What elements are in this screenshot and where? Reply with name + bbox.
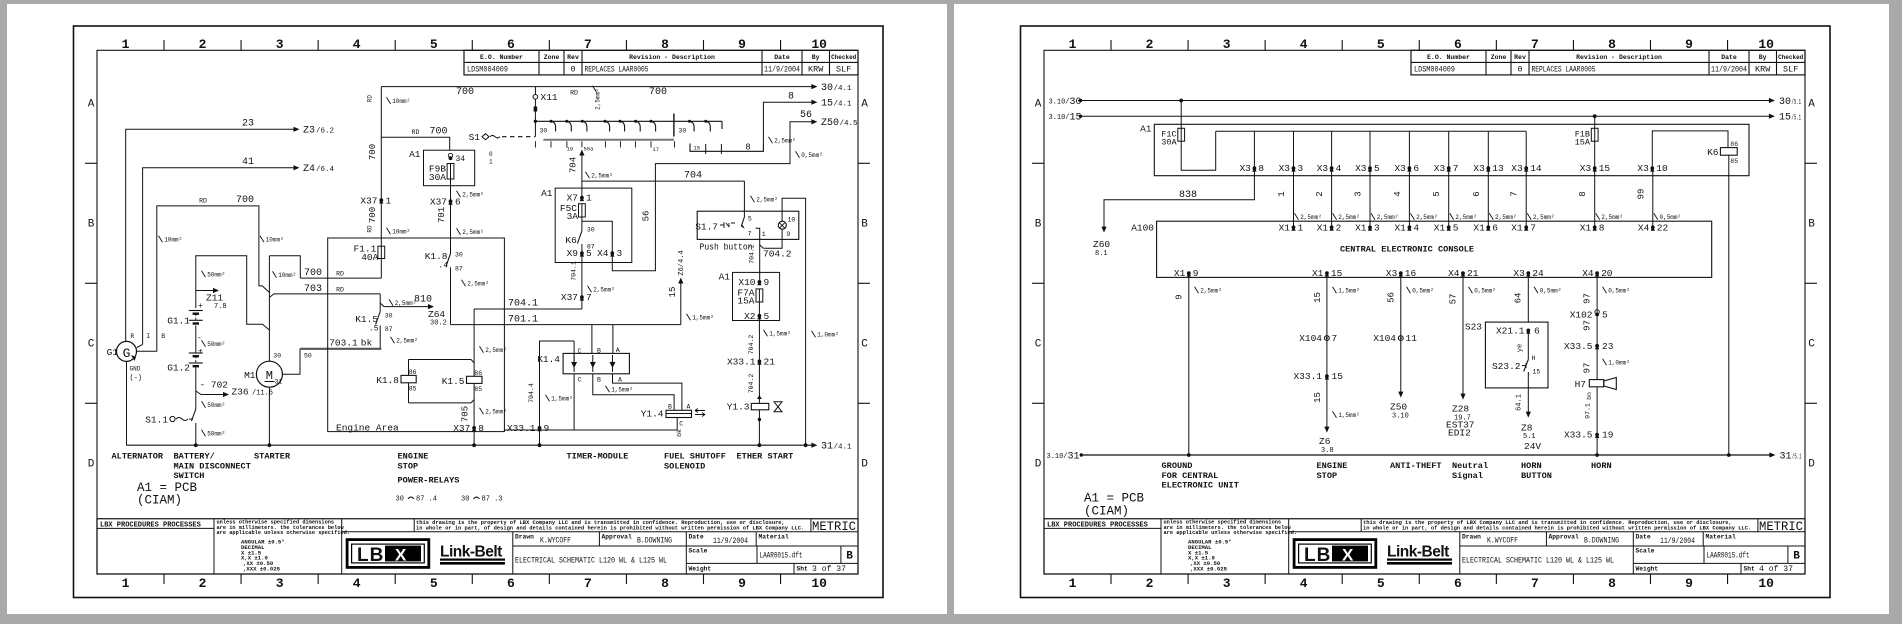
wire K6 85 to ground <box>1728 155 1730 455</box>
svg-text:1,5mm²: 1,5mm² <box>1338 412 1360 419</box>
svg-text:(CIAM): (CIAM) <box>1084 505 1129 519</box>
svg-text:Z50: Z50 <box>821 118 839 129</box>
svg-text:15A: 15A <box>737 296 754 307</box>
connector bracket 15/8 <box>690 142 763 151</box>
svg-text:SLF: SLF <box>836 65 851 75</box>
lamp in push button <box>778 221 786 229</box>
svg-text:2,5mm²: 2,5mm² <box>1377 214 1399 221</box>
svg-text:3.8: 3.8 <box>1321 447 1334 455</box>
svg-text:9: 9 <box>1175 294 1185 299</box>
svg-text:703.1: 703.1 <box>329 337 358 348</box>
svg-text:2,5mm²: 2,5mm² <box>1601 214 1623 221</box>
wire F1C to internal bus <box>1181 131 1216 170</box>
svg-text:87 .3: 87 .3 <box>482 496 503 504</box>
svg-text:3: 3 <box>1223 37 1231 52</box>
svg-text:X1: X1 <box>1580 222 1592 233</box>
svg-text:4: 4 <box>353 576 361 591</box>
svg-text:X1: X1 <box>1317 222 1329 233</box>
svg-text:7: 7 <box>1332 333 1338 344</box>
svg-text:ELECTRICAL SCHEMATIC L120 WL &: ELECTRICAL SCHEMATIC L120 WL & L125 WL <box>1462 556 1614 566</box>
svg-text:1: 1 <box>762 231 766 238</box>
svg-text:are applicable unless otherwis: are applicable unless otherwise specifie… <box>217 530 351 536</box>
svg-text:15: 15 <box>694 145 701 152</box>
svg-text:4: 4 <box>1300 37 1308 52</box>
svg-text:0,5mm²: 0,5mm² <box>1660 214 1682 221</box>
title block scale cell <box>1633 562 1805 564</box>
svg-text:in whole or in part, of design: in whole or in part, of design and detai… <box>1363 526 1751 532</box>
svg-text:Z6/4.4: Z6/4.4 <box>678 250 686 275</box>
svg-text:X4: X4 <box>1638 222 1650 233</box>
svg-text:H7: H7 <box>1575 379 1586 390</box>
svg-text:LDSM004009: LDSM004009 <box>1414 65 1455 75</box>
svg-text:FOR CENTRAL: FOR CENTRAL <box>1162 471 1219 481</box>
svg-text:15: 15 <box>1070 113 1082 124</box>
svg-text:B: B <box>597 376 601 383</box>
svg-text:K6: K6 <box>1707 147 1719 158</box>
svg-text:X3: X3 <box>1355 163 1367 174</box>
svg-text:6: 6 <box>1534 325 1540 336</box>
svg-text:K1.5: K1.5 <box>442 376 465 387</box>
svg-text:Z60: Z60 <box>1093 239 1110 250</box>
wire 700 vertical from top bus / node X37 1 <box>380 87 382 247</box>
svg-text:X1: X1 <box>1473 222 1485 233</box>
svg-text:STARTER: STARTER <box>254 452 291 462</box>
svg-text:1: 1 <box>1277 191 1287 196</box>
svg-text:A: A <box>1808 99 1815 111</box>
svg-text:8: 8 <box>1608 576 1616 591</box>
svg-text:11/9/2004: 11/9/2004 <box>1711 65 1747 75</box>
svg-text:Zone: Zone <box>1491 54 1507 61</box>
svg-text:Z11: Z11 <box>206 293 223 304</box>
wire 703 bus <box>269 294 380 298</box>
svg-text:15: 15 <box>1331 268 1343 279</box>
svg-text:0,5mm²: 0,5mm² <box>1412 288 1434 295</box>
svg-text:Rev: Rev <box>567 54 579 61</box>
svg-text:10mm²: 10mm² <box>266 237 284 244</box>
svg-text:By: By <box>1759 54 1767 61</box>
column ruler ticks <box>1110 40 1112 50</box>
svg-text:Drawn: Drawn <box>1462 534 1481 541</box>
svg-text:7: 7 <box>584 576 592 591</box>
svg-text:10: 10 <box>1758 576 1774 591</box>
svg-text:K1.8: K1.8 <box>425 251 448 262</box>
svg-text:X104: X104 <box>1373 333 1396 344</box>
svg-text:2,5mm²: 2,5mm² <box>467 281 489 288</box>
svg-text:2,5mm²: 2,5mm² <box>1455 214 1477 221</box>
title block disclaimer cell <box>1289 531 1805 533</box>
svg-text:X33.1: X33.1 <box>1293 371 1322 382</box>
node X3 5 <box>1369 131 1371 168</box>
svg-text:2,5mm²: 2,5mm² <box>591 173 613 180</box>
svg-text:X9: X9 <box>567 248 579 259</box>
svg-text:9: 9 <box>786 231 790 238</box>
svg-text:30: 30 <box>385 313 393 320</box>
svg-text:Sht: Sht <box>797 566 809 573</box>
svg-text:Zone: Zone <box>544 54 560 61</box>
title block size cell <box>1787 546 1789 563</box>
svg-text:15: 15 <box>1533 369 1541 376</box>
relay contact K6 <box>577 231 582 244</box>
svg-text:0,5mm²: 0,5mm² <box>801 152 823 159</box>
module A1 box (fuse panel) <box>1154 124 1749 175</box>
svg-text:C: C <box>578 376 582 383</box>
switch S23.2 horn contact <box>1524 360 1529 372</box>
wire 700 top bus to 30/4.1 <box>381 86 813 88</box>
svg-text:50mm²: 50mm² <box>207 272 225 279</box>
svg-text:/5.1: /5.1 <box>1792 115 1802 123</box>
svg-text:B: B <box>1808 219 1815 231</box>
svg-text:X10: X10 <box>738 277 755 288</box>
svg-text:RD: RD <box>336 271 344 278</box>
svg-text:31: 31 <box>821 442 833 453</box>
svg-text:X104: X104 <box>1299 333 1322 344</box>
title block material cell <box>755 532 757 546</box>
wire K1.4 C / bk to Y1.4 C <box>574 374 677 430</box>
svg-text:5: 5 <box>1377 576 1385 591</box>
svg-text:50mm²: 50mm² <box>207 341 225 348</box>
svg-text:30: 30 <box>587 227 595 234</box>
svg-text:8: 8 <box>661 576 669 591</box>
svg-text:0,5mm²: 0,5mm² <box>1608 288 1630 295</box>
wire 704.1 / node X37 7 <box>581 253 583 309</box>
wire 56 to Z50/4.5 <box>612 122 813 271</box>
svg-text:97.1: 97.1 <box>1585 403 1592 419</box>
svg-text:30: 30 <box>273 353 281 360</box>
svg-text:Weight: Weight <box>1636 566 1659 573</box>
svg-text:700: 700 <box>429 127 447 138</box>
svg-text:704.2: 704.2 <box>748 374 755 394</box>
svg-text:- 702: - 702 <box>200 380 229 391</box>
wire 64 X3 24 to S23 <box>1527 273 1529 322</box>
svg-text:10mm²: 10mm² <box>278 272 296 279</box>
svg-text:22: 22 <box>1657 222 1669 233</box>
wire K1.4 B tap <box>591 325 593 354</box>
svg-text:RD: RD <box>570 90 578 97</box>
wire 701.1 bus <box>451 324 681 326</box>
title block drawn/approval cells <box>512 532 514 574</box>
svg-text:704.2: 704.2 <box>748 335 755 355</box>
svg-text:C: C <box>88 339 95 351</box>
wire 704 from connector 50a <box>579 150 584 156</box>
svg-text:Revision - Description: Revision - Description <box>1576 54 1662 61</box>
svg-text:bk: bk <box>676 429 683 437</box>
svg-text:4: 4 <box>1336 163 1342 174</box>
svg-text:ALTERNATOR: ALTERNATOR <box>112 452 164 462</box>
svg-text:Checked: Checked <box>831 54 857 61</box>
svg-text:56: 56 <box>800 110 812 121</box>
relay coil K1.8 <box>408 360 410 376</box>
title block date cell <box>685 532 687 574</box>
svg-text:1: 1 <box>122 37 130 52</box>
svg-text:D: D <box>1808 459 1815 471</box>
svg-text:705: 705 <box>461 406 471 422</box>
svg-text:2,5mm²: 2,5mm² <box>462 229 484 236</box>
svg-text:Y1.4: Y1.4 <box>641 409 664 420</box>
svg-text:40A: 40A <box>361 252 378 263</box>
wires X3 to X1 connector rows <box>1293 168 1295 227</box>
svg-text:C: C <box>1808 339 1815 351</box>
svg-text:8: 8 <box>1599 222 1605 233</box>
svg-text:X4: X4 <box>1448 268 1460 279</box>
svg-text:97: 97 <box>1582 293 1592 304</box>
svg-text:15A: 15A <box>1575 138 1591 148</box>
wire relay coil loop <box>409 359 472 361</box>
switch S1.7 contact <box>743 211 745 217</box>
svg-text:6: 6 <box>507 576 515 591</box>
svg-text:6: 6 <box>1413 163 1419 174</box>
svg-text:704.4: 704.4 <box>528 383 535 403</box>
svg-text:8: 8 <box>745 143 750 153</box>
svg-text:17: 17 <box>653 146 660 153</box>
svg-text:M1: M1 <box>244 370 256 381</box>
svg-text:700: 700 <box>368 144 378 160</box>
svg-text:1,5mm²: 1,5mm² <box>611 387 633 394</box>
svg-text:2,5mm²: 2,5mm² <box>1495 214 1517 221</box>
relay contact K1.8 (.4) <box>446 254 451 267</box>
svg-text:G1.1: G1.1 <box>167 316 190 327</box>
node X3 4 <box>1331 131 1333 168</box>
svg-text:6: 6 <box>1454 576 1462 591</box>
svg-text:LDSM004009: LDSM004009 <box>467 65 508 75</box>
battery G1.2 <box>189 352 203 354</box>
svg-text:X1: X1 <box>1312 268 1324 279</box>
svg-text:Push button: Push button <box>700 242 753 253</box>
svg-text:KRW: KRW <box>1755 65 1771 75</box>
svg-text:21: 21 <box>764 356 776 367</box>
title block scale cell <box>686 562 858 564</box>
svg-text:701: 701 <box>437 207 447 223</box>
svg-text:Z36: Z36 <box>232 387 249 398</box>
wire internal bus A1 <box>1216 130 1527 132</box>
row ruler ticks <box>85 162 97 164</box>
svg-text:A1: A1 <box>1140 124 1152 135</box>
svg-text:X3: X3 <box>1473 163 1485 174</box>
svg-text:LBX PROCEDURES PROCESSES: LBX PROCEDURES PROCESSES <box>1047 521 1148 529</box>
svg-text:/4.1: /4.1 <box>834 85 853 93</box>
svg-text:ELECTRICAL SCHEMATIC L120 WL &: ELECTRICAL SCHEMATIC L120 WL & L125 WL <box>515 556 667 566</box>
svg-text:15: 15 <box>668 287 678 298</box>
svg-text:704.2: 704.2 <box>763 248 792 259</box>
svg-text:C: C <box>679 420 683 427</box>
inner drawing frame <box>1044 50 1805 574</box>
svg-text:STOP: STOP <box>398 461 419 471</box>
svg-text:7: 7 <box>748 230 752 237</box>
svg-text:3: 3 <box>1298 163 1304 174</box>
svg-text:8.1: 8.1 <box>1095 250 1108 258</box>
ground bus 31/4.1 <box>127 444 814 446</box>
svg-text:Approval: Approval <box>602 534 632 541</box>
svg-text:are applicable unless otherwis: are applicable unless otherwise specifie… <box>1164 530 1298 536</box>
svg-text:X4: X4 <box>597 248 609 259</box>
svg-text:M: M <box>266 369 273 383</box>
svg-text:REPLACES LAAR0005: REPLACES LAAR0005 <box>1532 65 1596 75</box>
svg-text:5: 5 <box>430 37 438 52</box>
svg-text:30: 30 <box>1070 97 1082 108</box>
svg-text:RD: RD <box>336 287 344 294</box>
connector rail lower contacts <box>543 139 674 141</box>
svg-text:X3: X3 <box>1511 163 1523 174</box>
svg-text:2,5mm²: 2,5mm² <box>595 88 602 110</box>
svg-text:16: 16 <box>1405 268 1417 279</box>
title block file cell <box>1703 546 1705 563</box>
svg-text:Checked: Checked <box>1778 54 1804 61</box>
svg-text:10mm²: 10mm² <box>392 229 410 236</box>
title block file cell <box>756 546 758 563</box>
svg-text:Drawn: Drawn <box>515 534 534 541</box>
svg-text:19: 19 <box>1602 430 1614 441</box>
svg-text:D: D <box>1035 459 1042 471</box>
svg-text:G: G <box>123 346 131 361</box>
svg-text:56: 56 <box>642 211 652 222</box>
svg-text:14: 14 <box>1530 163 1542 174</box>
svg-text:A1: A1 <box>409 149 421 160</box>
svg-text:X3: X3 <box>1394 163 1406 174</box>
svg-text:8: 8 <box>788 92 794 103</box>
svg-text:7: 7 <box>586 292 592 303</box>
svg-text:,XXX ±0.025: ,XXX ±0.025 <box>243 566 281 573</box>
svg-text:/5.1: /5.1 <box>1792 99 1802 107</box>
relay coil K1.5 <box>473 309 475 376</box>
svg-text:2: 2 <box>1315 191 1325 196</box>
svg-text:24: 24 <box>1532 268 1544 279</box>
svg-text:15: 15 <box>821 99 833 110</box>
svg-text:Z50: Z50 <box>1390 402 1407 413</box>
svg-text:X4: X4 <box>1582 268 1594 279</box>
svg-text:CENTRAL ELECTRONIC CONSOLE: CENTRAL ELECTRONIC CONSOLE <box>1340 245 1474 255</box>
svg-text:X33.1: X33.1 <box>507 423 536 434</box>
svg-text:C: C <box>861 339 868 351</box>
svg-text:1,0mm²: 1,0mm² <box>817 332 839 339</box>
wire 56 X3 16 to Z50/3.10 <box>1400 273 1402 394</box>
svg-text:1: 1 <box>1069 37 1077 52</box>
svg-text:1,5mm²: 1,5mm² <box>551 396 573 403</box>
svg-text:9: 9 <box>764 277 770 288</box>
svg-text:3: 3 <box>1374 222 1380 233</box>
svg-text:S23.2: S23.2 <box>1492 361 1521 372</box>
svg-text:64: 64 <box>1514 293 1524 304</box>
wire 704 bus to push button <box>582 180 745 182</box>
svg-text:57: 57 <box>1448 294 1458 305</box>
svg-text:X3: X3 <box>1317 163 1329 174</box>
svg-text:/6.4: /6.4 <box>316 166 335 174</box>
svg-text:K1.4: K1.4 <box>537 354 560 365</box>
svg-text:X1: X1 <box>1434 222 1446 233</box>
fuse F1B 15A <box>1593 114 1597 118</box>
svg-text:X3: X3 <box>1239 163 1251 174</box>
svg-text:LB: LB <box>357 545 384 566</box>
svg-text:3 of 37: 3 of 37 <box>812 564 846 574</box>
svg-text:B: B <box>1793 551 1800 563</box>
svg-text:REPLACES LAAR0005: REPLACES LAAR0005 <box>585 65 649 75</box>
svg-text:(-): (-) <box>130 375 143 383</box>
wire battery to 700/703 buses <box>269 256 300 278</box>
svg-text:9: 9 <box>1685 576 1693 591</box>
wire K1.4 B to Y1.4 B <box>593 374 674 411</box>
svg-text:D: D <box>88 459 95 471</box>
wire 97 X4 20 to horn circuit <box>1596 273 1598 455</box>
svg-text:2,5mm²: 2,5mm² <box>1338 214 1360 221</box>
svg-text:Date: Date <box>774 54 790 61</box>
svg-text:X: X <box>1342 545 1354 564</box>
svg-text:Revision - Description: Revision - Description <box>629 54 715 61</box>
svg-text:B: B <box>161 333 165 340</box>
relay coil K6 <box>1720 148 1737 156</box>
relay contact K1.5 (.5) on 703 <box>379 294 381 312</box>
svg-text:B: B <box>846 551 853 563</box>
svg-text:SLF: SLF <box>1783 65 1798 75</box>
svg-text:4: 4 <box>1393 191 1403 196</box>
svg-text:3: 3 <box>1223 576 1231 591</box>
svg-text:X3: X3 <box>1279 163 1291 174</box>
svg-text:in whole or in part, of design: in whole or in part, of design and detai… <box>416 526 804 532</box>
svg-text:/4.5: /4.5 <box>840 120 859 128</box>
svg-text:10mm²: 10mm² <box>392 98 410 105</box>
svg-text:1,5mm²: 1,5mm² <box>692 315 714 322</box>
wire lamp 10 to ground via 1,0mm2 <box>782 198 806 445</box>
svg-text:Z6: Z6 <box>1319 436 1331 447</box>
svg-text:D: D <box>861 459 868 471</box>
title block LBX procedures cell <box>1044 527 1161 529</box>
svg-text:Signal: Signal <box>1452 471 1483 481</box>
svg-text:X1: X1 <box>1279 222 1291 233</box>
svg-text:6: 6 <box>1492 222 1498 233</box>
svg-text:Neutral: Neutral <box>1452 461 1488 471</box>
module A1 box with F5C/K6 <box>555 188 632 262</box>
svg-text:Scale: Scale <box>1636 548 1655 555</box>
svg-text:Rev: Rev <box>1514 54 1526 61</box>
wire 810 to Z64/30.2 <box>380 303 430 307</box>
svg-text:5: 5 <box>1453 222 1459 233</box>
svg-text:A: A <box>1035 99 1042 111</box>
svg-text:LBX PROCEDURES PROCESSES: LBX PROCEDURES PROCESSES <box>100 521 201 529</box>
wire 15 X1 15 to Z6/3.8 <box>1326 273 1328 429</box>
svg-text:.4: .4 <box>438 262 448 271</box>
svg-text:Weight: Weight <box>689 566 712 573</box>
svg-text:700: 700 <box>368 207 378 223</box>
svg-text:2: 2 <box>199 576 207 591</box>
svg-text:HORN: HORN <box>1591 461 1612 471</box>
node X3 3 <box>1293 131 1295 168</box>
svg-text:31: 31 <box>275 379 283 386</box>
title block LBX procedures cell <box>97 527 214 529</box>
svg-text:B: B <box>597 348 601 355</box>
svg-text:Z64: Z64 <box>428 309 445 320</box>
wire 704.4 to X33.1 9 <box>540 341 575 445</box>
svg-text:0: 0 <box>1517 65 1522 75</box>
svg-text:1: 1 <box>489 159 493 166</box>
title block METRIC cell <box>1757 519 1759 532</box>
svg-text:4: 4 <box>1300 576 1308 591</box>
svg-text:2,5mm²: 2,5mm² <box>485 347 507 354</box>
wire 704 to S1.7 pin 5 <box>743 181 745 211</box>
svg-text:85: 85 <box>474 386 482 393</box>
svg-text:ANTI-THEFT: ANTI-THEFT <box>1390 461 1442 471</box>
svg-text:5: 5 <box>430 576 438 591</box>
svg-text:701.1: 701.1 <box>508 315 538 326</box>
central electronic console A100 box <box>1157 221 1712 277</box>
svg-text:2,5mm²: 2,5mm² <box>485 409 507 416</box>
svg-text:0: 0 <box>570 65 575 75</box>
svg-text:-: - <box>197 334 202 343</box>
svg-text:Approval: Approval <box>1549 534 1579 541</box>
svg-text:ELECTRONIC UNIT: ELECTRONIC UNIT <box>1162 481 1239 491</box>
svg-text:C: C <box>578 348 582 355</box>
svg-text:/5.1: /5.1 <box>1792 454 1802 462</box>
svg-text:3.10/: 3.10/ <box>1047 453 1068 461</box>
outer border frame <box>74 26 884 598</box>
page background <box>954 4 1889 614</box>
svg-text:9: 9 <box>544 423 550 434</box>
